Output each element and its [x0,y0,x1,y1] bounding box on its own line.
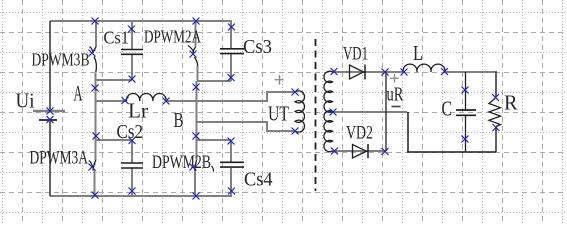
svg-text:C: C [442,96,453,120]
svg-text:VD2: VD2 [346,124,373,144]
svg-text:B: B [174,108,184,132]
svg-text:A: A [74,81,83,106]
svg-text:R: R [504,91,518,115]
svg-text:DPWM3A: DPWM3A [30,149,89,169]
svg-text:DPWM2B: DPWM2B [152,152,211,173]
svg-text:uR: uR [387,84,404,106]
svg-text:VD1: VD1 [343,45,368,65]
svg-text:DPWM3B: DPWM3B [32,50,90,70]
svg-text:DPWM2A: DPWM2A [144,27,201,47]
svg-text:L: L [413,41,423,65]
svg-text:Lr: Lr [128,99,148,123]
svg-text:Ui: Ui [16,89,35,113]
svg-text:Cs3: Cs3 [243,37,272,58]
svg-text:Cs1: Cs1 [104,28,130,48]
svg-text:Cs4: Cs4 [244,170,273,191]
svg-text:Cs2: Cs2 [117,122,144,143]
svg-text:UT: UT [268,102,289,126]
